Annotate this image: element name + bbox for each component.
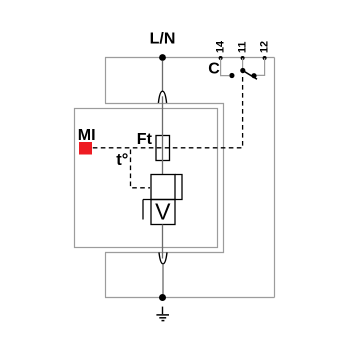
base part outline (open-left rectangle) (105, 104, 224, 253)
node earth junction dot (159, 294, 166, 301)
switch C: blade (243, 71, 257, 80)
node terminal 12 dot (263, 56, 267, 60)
switch C: pivot dot (240, 68, 245, 73)
wire: lead from terminal 11 to pivot (242, 58, 244, 69)
switch C: NC contact dot (251, 73, 256, 78)
plug-in contact (bottom socket cup) (159, 252, 167, 263)
plug-in contact (top socket arch) (158, 91, 166, 103)
wire: from varistor down to bottom plug contact (162, 225, 164, 259)
node terminal 11 dot (241, 56, 245, 60)
wire: left drop from top rail to base box (105, 58, 107, 104)
wire: lead from terminal 12 to NC contact (256, 58, 265, 75)
dashed link: thermal sense t° to disconnector (131, 150, 151, 188)
indicator MI red square (79, 142, 92, 155)
disconnector gap box (151, 175, 175, 200)
svg-text:12: 12 (259, 41, 271, 53)
label V (varistor) (155, 199, 171, 225)
varistor V box (151, 200, 175, 225)
svg-text:14: 14 (214, 41, 226, 53)
svg-text:L/N: L/N (150, 31, 176, 48)
wire: right rail down (274, 58, 276, 298)
label MI (78, 127, 96, 144)
wire: top rail from left drop to right rail (105, 57, 275, 59)
disconnector moving plate right (175, 175, 182, 200)
wire: centre conductor from L/N node to plug contact (162, 61, 164, 91)
dashed link: switch pivot down and across to Ft / MI (93, 74, 243, 148)
label L/N (150, 31, 176, 48)
wire: from bottom contact to earth node (162, 264, 164, 295)
label Ft (137, 131, 153, 148)
switch C: NO contact dot (229, 73, 234, 78)
terminal 11 label (236, 42, 248, 53)
wire: module pin down through Ft to disconnector (162, 96, 164, 174)
svg-text:C: C (208, 61, 220, 78)
svg-text:11: 11 (236, 42, 248, 53)
terminal 12 label (259, 41, 271, 53)
node L/N junction dot (159, 54, 166, 61)
wire: left drop from base box to bottom rail (105, 253, 107, 298)
label t° (116, 151, 128, 169)
label C (changeover contact) (208, 61, 220, 78)
svg-text:Ft: Ft (137, 131, 153, 148)
disconnector moving plate left (143, 200, 151, 220)
node terminal 14 dot (219, 56, 223, 60)
svg-text:t°: t° (116, 151, 128, 169)
enclosure box (module housing) (75, 109, 218, 248)
wire: lead from terminal 14 to NO contact (221, 58, 229, 76)
terminal 14 label (214, 41, 226, 53)
svg-text:MI: MI (78, 127, 96, 144)
ground symbol (156, 307, 169, 321)
thermal fuse Ft (156, 136, 170, 161)
wire: bottom rail to earth (105, 297, 275, 299)
svg-text:V: V (155, 199, 171, 225)
